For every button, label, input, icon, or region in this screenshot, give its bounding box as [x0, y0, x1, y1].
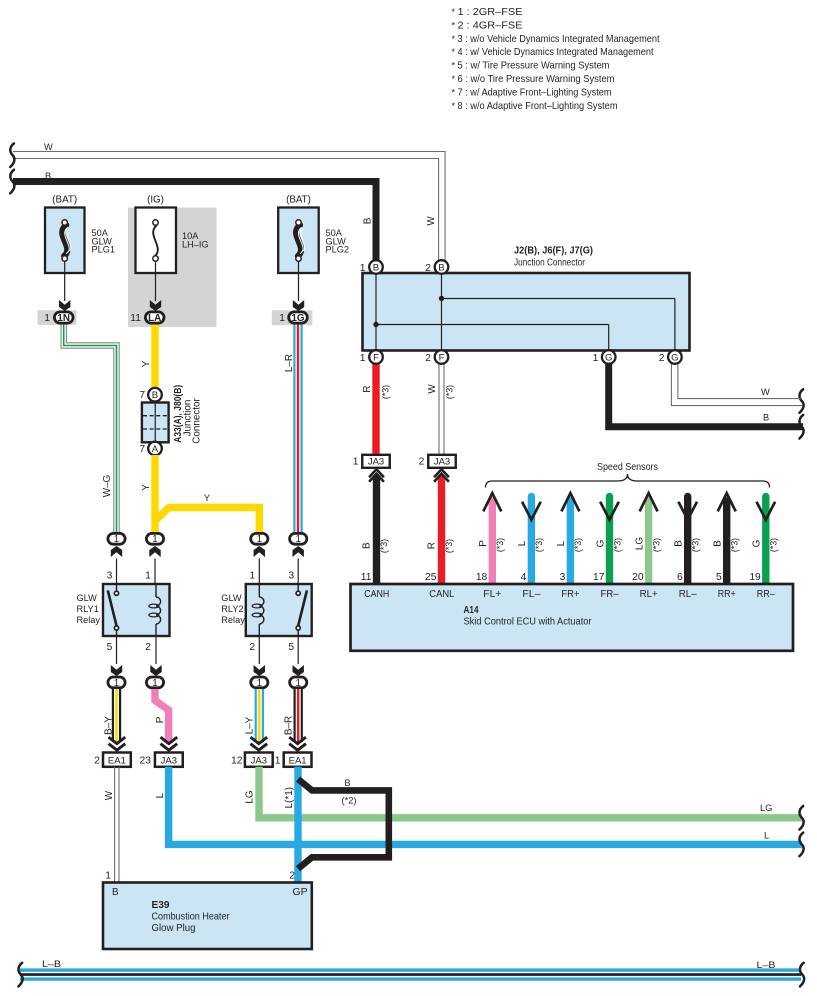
svg-text:1: 1 [114, 534, 119, 545]
svg-text:JA3: JA3 [161, 755, 177, 766]
svg-text:FL+: FL+ [483, 589, 501, 600]
svg-text:W: W [44, 142, 53, 152]
svg-text:W: W [427, 384, 438, 394]
svg-text:R: R [362, 385, 373, 392]
svg-text:EA1: EA1 [289, 755, 307, 766]
svg-text:JA3: JA3 [434, 457, 450, 468]
svg-text:19: 19 [749, 572, 761, 583]
svg-text:P: P [478, 540, 489, 547]
svg-text:Speed Sensors: Speed Sensors [597, 462, 658, 473]
svg-text:2: 2 [425, 353, 431, 364]
svg-text:20: 20 [632, 572, 644, 583]
svg-text:A14: A14 [464, 605, 479, 616]
svg-text:1: 1 [360, 263, 366, 274]
svg-text:3: 3 [107, 571, 113, 582]
svg-text:6: 6 [677, 572, 683, 583]
svg-text:(*3): (*3) [651, 538, 661, 552]
svg-text:*: * [452, 61, 456, 71]
svg-text:Glow Plug: Glow Plug [152, 923, 196, 934]
svg-text:5: 5 [716, 572, 722, 583]
svg-text:B: B [373, 262, 379, 273]
svg-text:L: L [556, 540, 567, 546]
svg-text:3 : w/o Vehicle Dynamics Integ: 3 : w/o Vehicle Dynamics Integrated Mana… [458, 34, 660, 45]
svg-text:1: 1 [257, 678, 262, 689]
svg-text:2: 2 [249, 642, 255, 653]
svg-text:(*3): (*3) [691, 538, 701, 552]
svg-text:(*2): (*2) [342, 796, 357, 806]
svg-text:5: 5 [288, 642, 294, 653]
svg-text:2: 2 [419, 457, 425, 468]
svg-text:1: 1 [249, 571, 255, 582]
svg-text:LA: LA [148, 313, 161, 324]
svg-text:*: * [452, 101, 456, 111]
svg-text:*: * [452, 47, 456, 57]
svg-text:(BAT): (BAT) [286, 195, 311, 206]
svg-text:2: 2 [94, 755, 100, 766]
svg-text:*: * [452, 7, 456, 17]
svg-text:CANH: CANH [364, 589, 389, 600]
svg-text:1N: 1N [57, 313, 70, 324]
svg-text:(*3): (*3) [379, 539, 389, 553]
svg-text:L: L [517, 540, 528, 546]
svg-text:(*3): (*3) [730, 538, 740, 552]
svg-text:1: 1 [295, 534, 300, 545]
svg-text:*: * [452, 74, 456, 84]
svg-text:6 : w/o Tire Pressure Warning: 6 : w/o Tire Pressure Warning System [458, 74, 615, 85]
svg-text:1: 1 [353, 457, 359, 468]
svg-text:4: 4 [521, 572, 527, 583]
svg-text:B: B [363, 217, 374, 224]
svg-text:7 : w/ Adaptive Front–Lighting: 7 : w/ Adaptive Front–Lighting System [458, 87, 612, 98]
svg-text:1 : 2GR–FSE: 1 : 2GR–FSE [458, 7, 523, 18]
svg-text:RR+: RR+ [718, 589, 736, 600]
svg-text:B: B [438, 262, 444, 273]
svg-text:LG: LG [760, 803, 772, 813]
svg-text:B: B [674, 540, 685, 547]
svg-text:G: G [752, 540, 763, 548]
svg-text:L–Y: L–Y [245, 716, 256, 734]
svg-text:8 : w/o Adaptive Front–Lightin: 8 : w/o Adaptive Front–Lighting System [458, 101, 618, 112]
svg-text:1: 1 [44, 313, 50, 324]
svg-text:Skid Control ECU with Actuator: Skid Control ECU with Actuator [464, 617, 593, 628]
svg-text:11: 11 [130, 313, 141, 324]
svg-text:B: B [45, 171, 51, 181]
svg-text:L–B: L–B [42, 959, 61, 969]
svg-text:P: P [155, 716, 166, 723]
svg-text:Connector: Connector [192, 398, 203, 444]
svg-text:*: * [452, 87, 456, 97]
svg-text:25: 25 [425, 572, 437, 583]
svg-text:L–R: L–R [284, 354, 295, 372]
svg-text:(*3): (*3) [573, 538, 583, 552]
svg-text:FL–: FL– [522, 589, 540, 600]
svg-text:2: 2 [425, 263, 431, 274]
svg-text:CANL: CANL [429, 589, 454, 600]
svg-text:*: * [452, 20, 456, 30]
svg-text:RLY2: RLY2 [221, 604, 243, 614]
svg-text:4 : w/ Vehicle Dynamics Integr: 4 : w/ Vehicle Dynamics Integrated Manag… [458, 47, 654, 58]
svg-text:L(*1): L(*1) [284, 787, 295, 808]
svg-text:12: 12 [231, 755, 243, 766]
svg-text:1: 1 [114, 678, 119, 689]
svg-text:W: W [426, 216, 437, 226]
svg-text:3: 3 [560, 572, 566, 583]
svg-text:B: B [713, 540, 724, 547]
svg-text:Combustion Heater: Combustion Heater [152, 912, 231, 923]
svg-text:1: 1 [145, 571, 151, 582]
svg-text:1: 1 [593, 353, 599, 364]
svg-text:23: 23 [140, 755, 152, 766]
svg-text:1: 1 [105, 871, 111, 882]
svg-text:F: F [373, 352, 379, 363]
svg-text:18: 18 [476, 572, 488, 583]
svg-text:F: F [439, 352, 445, 363]
svg-text:FR+: FR+ [561, 589, 579, 600]
svg-text:5: 5 [107, 642, 113, 653]
svg-text:1: 1 [360, 353, 366, 364]
svg-text:1: 1 [152, 534, 157, 545]
svg-text:RLY1: RLY1 [77, 604, 99, 614]
svg-text:GP: GP [293, 887, 308, 898]
svg-text:Relay: Relay [77, 615, 101, 625]
svg-text:G: G [671, 352, 678, 363]
svg-text:B: B [152, 390, 158, 401]
svg-text:Relay: Relay [221, 615, 245, 625]
svg-text:11: 11 [361, 572, 372, 583]
svg-text:LG: LG [634, 537, 645, 550]
svg-text:JA3: JA3 [368, 457, 384, 468]
svg-text:1: 1 [152, 678, 157, 689]
svg-text:PLG2: PLG2 [326, 245, 350, 255]
svg-text:Y: Y [141, 360, 152, 367]
svg-text:(*3): (*3) [444, 539, 454, 553]
svg-text:(*3): (*3) [495, 538, 505, 552]
svg-text:LG: LG [245, 790, 256, 803]
svg-text:L: L [764, 831, 769, 841]
svg-text:2: 2 [145, 642, 151, 653]
svg-text:J2(B), J6(F), J7(G): J2(B), J6(F), J7(G) [514, 246, 593, 257]
svg-text:LH–IG: LH–IG [182, 239, 209, 249]
svg-text:17: 17 [593, 572, 605, 583]
svg-text:B: B [763, 413, 769, 423]
svg-text:L: L [155, 792, 166, 798]
svg-text:FR–: FR– [601, 589, 619, 600]
svg-text:W: W [104, 790, 115, 800]
svg-text:B–Y: B–Y [104, 716, 115, 735]
svg-text:RL+: RL+ [640, 589, 658, 600]
svg-text:(BAT): (BAT) [52, 195, 77, 206]
svg-text:Y: Y [141, 484, 152, 491]
svg-text:Y: Y [204, 493, 210, 503]
svg-text:EA1: EA1 [108, 755, 126, 766]
svg-text:3: 3 [288, 571, 294, 582]
svg-text:B: B [112, 887, 119, 898]
svg-text:B: B [344, 778, 350, 788]
svg-text:E39: E39 [152, 900, 171, 911]
svg-text:G: G [605, 352, 612, 363]
svg-text:GLW: GLW [221, 593, 242, 603]
svg-text:(*3): (*3) [534, 538, 544, 552]
svg-text:B–R: B–R [284, 716, 295, 735]
svg-text:RR–: RR– [757, 589, 775, 600]
svg-text:B: B [362, 542, 373, 549]
svg-text:2 : 4GR–FSE: 2 : 4GR–FSE [458, 20, 523, 31]
svg-text:7: 7 [139, 390, 145, 401]
svg-text:G: G [595, 540, 606, 548]
svg-text:1: 1 [275, 755, 281, 766]
svg-text:Junction Connector: Junction Connector [514, 258, 586, 269]
svg-text:1: 1 [279, 313, 285, 324]
svg-text:A: A [152, 444, 159, 455]
svg-text:JA3: JA3 [251, 755, 267, 766]
svg-text:2: 2 [289, 871, 295, 882]
svg-text:PLG1: PLG1 [92, 245, 116, 255]
svg-text:1G: 1G [291, 313, 304, 324]
svg-text:1: 1 [295, 678, 300, 689]
svg-text:RL–: RL– [679, 589, 697, 600]
svg-text:(IG): (IG) [147, 195, 164, 206]
svg-text:(*3): (*3) [769, 538, 779, 552]
svg-text:(*3): (*3) [444, 385, 454, 399]
svg-text:5 : w/ Tire Pressure Warning S: 5 : w/ Tire Pressure Warning System [458, 61, 610, 72]
svg-text:2: 2 [659, 353, 665, 364]
svg-text:L–B: L–B [757, 960, 776, 970]
svg-text:W–G: W–G [102, 475, 113, 498]
svg-text:GLW: GLW [77, 593, 98, 603]
svg-text:1: 1 [257, 534, 262, 545]
svg-text:7: 7 [139, 444, 145, 455]
svg-text:(*3): (*3) [612, 538, 622, 552]
svg-text:(*3): (*3) [381, 385, 391, 399]
svg-text:W: W [761, 387, 770, 397]
svg-text:R: R [427, 542, 438, 549]
svg-text:*: * [452, 34, 456, 44]
